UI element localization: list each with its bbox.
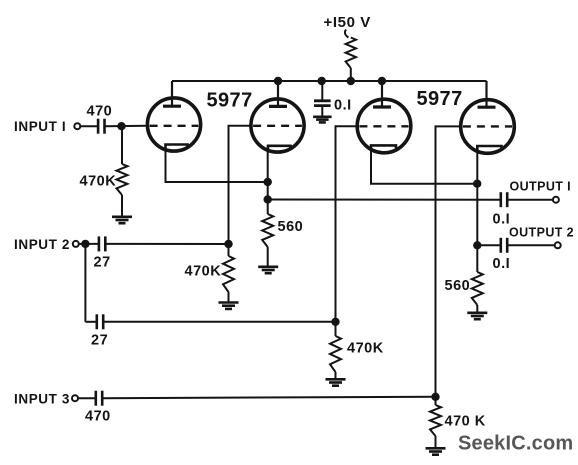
triode V2a 5977 <box>357 81 411 153</box>
svg-text:470K: 470K <box>80 174 117 190</box>
resistor R5 560 <box>262 214 273 247</box>
svg-text:INPUT 3: INPUT 3 <box>14 392 70 407</box>
+150V supply lead squiggle <box>345 30 349 38</box>
wire output2 <box>477 244 501 246</box>
wire C2 to V1a grid <box>105 125 149 127</box>
ground below C1 <box>313 117 332 123</box>
V1b cathode <box>268 146 291 150</box>
junction input2 split <box>81 240 89 248</box>
V2a plate lead <box>381 81 383 107</box>
V1a envelope circle <box>147 98 200 151</box>
capacitor C7 470 <box>96 391 102 406</box>
junction grid V2a / R3 <box>331 318 339 326</box>
ground below R6 <box>467 313 487 319</box>
wire B+ rail <box>172 80 487 82</box>
junction rail / V2a plate <box>378 77 386 85</box>
capacitor C6 0.1 output2 <box>501 238 507 253</box>
capacitor C3 27 <box>99 236 105 251</box>
ground below R3 <box>326 379 346 385</box>
wire V1b cathode down <box>267 147 269 214</box>
svg-text:470 K: 470 K <box>445 414 486 430</box>
wire V2b grid left and down <box>436 126 462 396</box>
wire to C5 <box>85 321 96 323</box>
junction output2 tap <box>473 241 481 249</box>
V1b grid (dashed) <box>253 125 302 127</box>
junction rail / V1b plate <box>274 77 282 85</box>
wire C5 to V2a grid junction <box>103 321 335 323</box>
svg-text:OUTPUT I: OUTPUT I <box>510 179 572 193</box>
wire bypass cap to ground <box>321 106 323 117</box>
wire R5 to ground <box>267 247 269 267</box>
wire V1b grid left and down <box>229 126 252 244</box>
resistor R2 470K <box>223 256 234 292</box>
triode V2b 5977 <box>461 81 515 153</box>
wire junction to R2 <box>228 244 230 256</box>
wire supply to rail <box>350 68 352 81</box>
terminal INPUT 3 <box>72 395 78 401</box>
V1b plate (anode) bar <box>269 105 287 108</box>
svg-text:27: 27 <box>94 255 111 271</box>
wire R6 to ground <box>476 305 478 313</box>
svg-text:+I50 V: +I50 V <box>324 14 371 31</box>
terminal OUTPUT 1 <box>553 197 559 203</box>
junction cathodes V2a/V2b <box>473 180 481 188</box>
V1a plate (anode) bar <box>163 105 181 108</box>
V2a grid (dashed) <box>359 125 408 127</box>
ground below R1 <box>112 217 132 223</box>
wire input3 terminal to C7 <box>78 397 96 399</box>
wire R4 to ground <box>435 436 437 448</box>
wire R3 to ground <box>335 372 337 379</box>
wire C7 to V2b grid junction <box>102 397 435 398</box>
svg-text:SeekIC.com: SeekIC.com <box>458 433 573 455</box>
ground below R5 <box>258 267 278 273</box>
svg-text:470: 470 <box>87 104 113 120</box>
wire V2b cathode down <box>476 147 478 272</box>
resistor R6 560 <box>472 272 483 305</box>
svg-text:INPUT 2: INPUT 2 <box>14 237 70 252</box>
terminal OUTPUT 2 <box>555 242 561 248</box>
V2a cathode <box>371 145 396 149</box>
svg-text:27: 27 <box>91 333 108 349</box>
capacitor C1 0.1 bypass plates <box>314 101 331 106</box>
svg-text:470K: 470K <box>185 264 222 280</box>
wire input2 lower branch down <box>84 244 86 322</box>
resistor R1 470K <box>117 164 128 195</box>
V2b plate (anode) bar <box>478 106 496 109</box>
wire C6 to output2 terminal <box>507 244 555 246</box>
V2b envelope circle <box>461 100 515 154</box>
V1b plate lead <box>277 81 279 106</box>
capacitor C4 0.1 output1 <box>501 192 507 207</box>
V2a plate (anode) bar <box>373 105 391 108</box>
junction rail / supply <box>347 77 355 85</box>
wire junction to R3 <box>335 322 337 336</box>
V2b grid (dashed) <box>463 125 512 127</box>
resistor R3 470K <box>330 336 341 372</box>
junction cathodes V1a/V1b <box>264 178 272 186</box>
capacitor C2 470 <box>98 119 104 134</box>
wire junction to R1 <box>121 126 123 164</box>
wire V1a cathode down and right <box>166 146 268 182</box>
svg-text:OUTPUT 2: OUTPUT 2 <box>509 226 574 240</box>
V1a cathode <box>166 145 188 149</box>
junction grid V2b / R4 <box>431 393 439 401</box>
wire R1 to ground <box>121 195 123 217</box>
junction rail / bypass cap <box>318 77 326 85</box>
svg-text:470: 470 <box>85 409 111 425</box>
V1a plate lead <box>171 81 173 106</box>
V2a envelope circle <box>357 99 411 153</box>
wire C3 to V1b grid junction <box>105 243 228 245</box>
V2b plate lead <box>485 81 487 107</box>
V2b cathode <box>477 146 501 150</box>
wire C4 to output1 terminal <box>507 199 553 201</box>
junction input1/R1 <box>117 122 125 130</box>
ground below R2 <box>219 303 239 309</box>
svg-text:0.I: 0.I <box>493 212 511 228</box>
triode V1b 5977 <box>251 81 304 152</box>
svg-text:560: 560 <box>445 278 471 294</box>
wire rail to bypass cap C1 <box>321 81 323 100</box>
resistor R4 470K <box>430 405 441 436</box>
ground below R4 <box>426 448 446 454</box>
svg-text:0.I: 0.I <box>493 256 511 272</box>
wire input2 terminal to C3 <box>79 243 99 245</box>
wire R2 to ground <box>228 292 230 302</box>
capacitor C5 27 <box>97 314 103 329</box>
svg-text:5977: 5977 <box>417 88 463 110</box>
svg-text:0.I: 0.I <box>334 98 352 114</box>
terminal INPUT 2 <box>73 241 79 247</box>
wire V2a cathode down and right <box>371 147 477 184</box>
V1b envelope circle <box>251 99 304 152</box>
svg-text:INPUT I: INPUT I <box>14 119 66 134</box>
svg-text:470K: 470K <box>347 341 384 357</box>
svg-text:5977: 5977 <box>207 90 253 112</box>
terminal INPUT 1 <box>74 123 80 129</box>
triode V1a 5977 <box>147 81 200 151</box>
wire V2a grid left and down <box>336 126 358 321</box>
wire output1 <box>268 199 501 201</box>
junction grid V1b / R2 <box>224 240 232 248</box>
junction output1 tap <box>264 195 272 203</box>
wire junction to R4 <box>435 397 437 405</box>
V1a grid (dashed) <box>150 125 199 127</box>
wire input1 terminal to C2 <box>80 125 98 127</box>
svg-text:560: 560 <box>278 219 304 235</box>
